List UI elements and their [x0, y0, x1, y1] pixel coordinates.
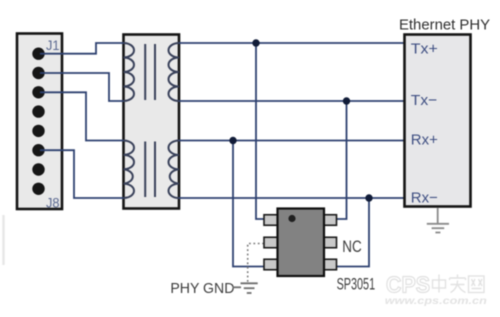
U1 pin bottom-right — [323, 259, 337, 270]
IC U1 pin-1 marker — [288, 215, 295, 222]
svg-text:Tx−: Tx− — [411, 92, 438, 109]
transformer T1 upper primary winding — [124, 43, 135, 101]
svg-text:PHY GND: PHY GND — [170, 281, 234, 297]
wire Tx- to U1 pin top-right — [336, 101, 347, 219]
ground PHY GND symbol — [233, 283, 258, 293]
svg-text:NC: NC — [342, 238, 362, 256]
U1 pin NC (mid-right) — [323, 237, 337, 248]
watermark CJK char 2 — [450, 275, 466, 293]
wire pin3 to lower winding top — [40, 92, 124, 140]
transformer T1 lower primary winding — [124, 141, 135, 199]
connector pin 2 — [32, 67, 44, 79]
connector pin 4 — [32, 105, 44, 117]
svg-text:CPS: CPS — [386, 272, 430, 298]
wire Rx- net — [179, 197, 405, 199]
IC U1 SP3051 pins right — [323, 215, 337, 270]
wire Tx+ to U1 pin top-left — [256, 43, 264, 219]
svg-text:www.cps.com.cn: www.cps.com.cn — [385, 296, 487, 307]
svg-text:J1: J1 — [46, 38, 60, 53]
connector pin 1 — [32, 48, 44, 60]
dotted wire U1 pin mid-left to PHY GND — [248, 244, 264, 283]
U1 pin top-right — [323, 215, 337, 226]
connector pin 5 — [32, 125, 44, 137]
wire Rx+ net — [179, 140, 405, 142]
transformer T1 body — [124, 35, 180, 209]
wire pin6 to lower winding bottom — [40, 150, 124, 198]
connector J1-J8 body — [17, 34, 62, 210]
connector pin 3 — [32, 86, 44, 98]
svg-text:Ethernet PHY: Ethernet PHY — [399, 18, 490, 34]
connector pin 8 — [32, 183, 44, 195]
IC U1 SP3051 pins left — [264, 215, 278, 270]
connector pin 7 — [32, 163, 44, 175]
transformer T1 lower secondary winding — [169, 141, 180, 199]
wire pin2 to upper winding bottom — [40, 73, 124, 101]
transformer T1 upper core — [145, 44, 155, 100]
wire pin1 to upper winding top — [40, 43, 124, 54]
svg-text:Rx+: Rx+ — [411, 131, 438, 148]
transformer T1 upper secondary winding — [169, 43, 180, 101]
svg-text:SP3051: SP3051 — [337, 276, 376, 294]
U1 pin 3 (bottom-left) — [264, 259, 278, 270]
svg-text:J8: J8 — [46, 196, 60, 211]
IC U1 SP3051 body — [278, 209, 325, 277]
wire Tx+ net — [179, 42, 405, 44]
junction on Tx+ — [252, 39, 259, 46]
watermark CJK char 1 — [433, 275, 446, 293]
ground at Ethernet PHY — [427, 208, 449, 233]
transformer T1 lower core — [145, 142, 155, 198]
junction on Tx- — [343, 97, 350, 104]
watermark CJK char 3 — [469, 276, 485, 293]
watermark partial left edge — [2, 215, 4, 265]
junction on Rx- — [365, 194, 372, 201]
connector pin 6 — [32, 144, 44, 156]
wire Rx- to U1 pin bottom-right — [336, 198, 369, 267]
svg-text:Tx+: Tx+ — [411, 40, 438, 57]
svg-text:Rx−: Rx− — [411, 190, 438, 207]
wire Tx- net — [179, 100, 405, 102]
junction on Rx+ — [229, 137, 236, 144]
wire Rx+ to U1 pin bottom-left — [233, 141, 264, 267]
U1 pin 1 (top-left) — [264, 215, 278, 226]
Ethernet PHY block — [405, 35, 471, 207]
U1 pin 2 (mid-left) — [264, 237, 278, 248]
